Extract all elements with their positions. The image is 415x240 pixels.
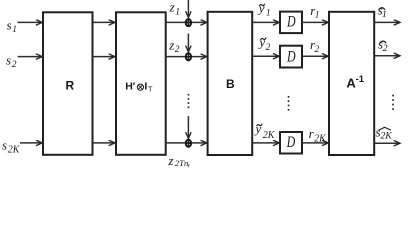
label y~2 [257,34,270,53]
summer 2 [185,53,191,60]
wire s2 to R [18,56,43,58]
svg-text:2: 2 [315,45,320,55]
label z1 [169,0,180,17]
wire z1 vertical [187,0,189,18]
svg-text:2K: 2K [8,145,21,156]
block D2 [280,46,302,68]
block A^-1 [329,12,374,155]
svg-text:y: y [257,34,265,49]
svg-text:2K: 2K [263,130,276,141]
label y~1 [257,1,271,19]
label z2TnR [167,153,190,170]
svg-text:B: B [226,77,235,91]
svg-text:1: 1 [175,7,180,17]
svg-text:2K: 2K [314,133,327,144]
wire s1 to R [18,21,43,23]
svg-text:I: I [144,80,147,92]
wire A out row3 [375,142,400,144]
svg-text:z: z [168,37,174,52]
wire R to H' row3 [93,142,115,144]
wire z2 vertical [187,34,189,52]
label z2 [168,37,180,55]
svg-text:2: 2 [266,43,271,53]
svg-text:T: T [148,85,153,94]
label s^2 [378,37,388,55]
dots column z [188,94,190,108]
summer 3 [185,140,191,147]
block B [208,12,253,155]
svg-text:D: D [286,134,296,151]
svg-text:1: 1 [266,9,271,19]
svg-text:s: s [2,138,7,153]
wire R to H' row1 [93,21,115,23]
svg-text:D: D [286,48,296,65]
svg-text:1: 1 [315,11,320,21]
block D1 [280,12,302,33]
svg-text:s: s [6,52,11,67]
svg-text:r: r [188,162,191,169]
svg-text:1: 1 [12,25,17,35]
label s^2K wide hat [376,124,393,141]
wire A out row2 [375,55,400,57]
wire R to H' row2 [93,56,115,58]
label s2K [2,138,21,156]
dots column out [392,95,394,110]
wire B to D3 [253,142,280,144]
svg-text:z: z [167,153,173,168]
block R [43,12,93,155]
svg-text:y: y [254,121,262,136]
wire B to D1 [253,21,280,23]
summer 1 [185,19,191,26]
block H'⊗IT [116,12,166,155]
svg-text:2: 2 [175,45,180,55]
svg-text:y: y [257,1,265,16]
svg-text:-1: -1 [356,74,365,85]
wire D3 to A [303,142,329,144]
svg-text:2: 2 [383,44,388,54]
wire D1 to A [303,21,329,23]
wire z2TnR vertical [187,116,189,138]
label r1 [310,3,319,21]
wire H' to B row2 [166,56,207,58]
wire s2K to R [20,142,42,144]
wire H' to B row1 [166,21,207,23]
wire A out row1 [375,21,400,23]
wire D2 to A [303,55,329,57]
label s^1 [378,2,387,20]
svg-text:D: D [286,14,296,31]
svg-text:2K: 2K [380,130,392,141]
svg-text:1: 1 [382,10,387,20]
svg-text:R: R [65,79,74,93]
svg-text:2: 2 [12,60,17,70]
wire H' to B row3 [166,142,207,144]
label s2 [6,52,17,70]
block D3 [280,132,302,154]
label y~2K [254,121,276,141]
svg-text:H′: H′ [125,80,136,92]
label s1 [7,17,17,35]
svg-text:s: s [7,17,12,32]
label r2K [309,126,328,144]
svg-text:z: z [169,0,175,14]
wire B to D2 [253,55,280,57]
label r2 [310,37,320,55]
dots column D [288,96,290,111]
